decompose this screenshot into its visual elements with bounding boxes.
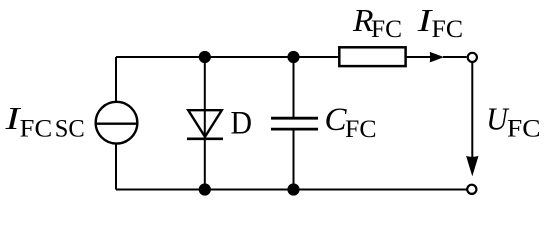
svg-text:SC: SC xyxy=(55,115,85,143)
svg-text:FC: FC xyxy=(345,115,377,143)
svg-text:FC: FC xyxy=(20,115,53,143)
svg-text:FC: FC xyxy=(371,15,402,43)
svg-text:FC: FC xyxy=(507,115,541,143)
svg-text:FC: FC xyxy=(432,15,464,43)
svg-text:D: D xyxy=(231,105,253,142)
